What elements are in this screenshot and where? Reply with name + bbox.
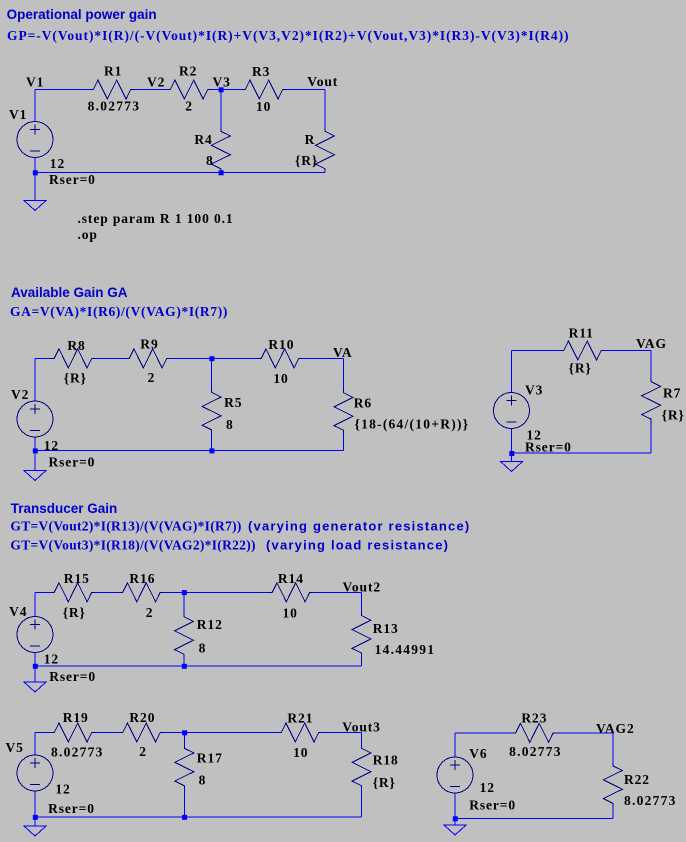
- junction: [33, 664, 38, 669]
- wire V4 bottom lead: [34, 652, 36, 682]
- svg-text:V1: V1: [26, 75, 44, 90]
- wire V1 node to R1: [35, 89, 90, 91]
- svg-text:10: 10: [256, 99, 271, 114]
- svg-text:GP=-V(Vout)*I(R)/(-V(Vout)*I(R: GP=-V(Vout)*I(R)/(-V(Vout)*I(R)+V(V3,V2)…: [7, 28, 569, 43]
- junction: [182, 730, 187, 735]
- resistor R15: [51, 583, 95, 602]
- svg-text:R20: R20: [129, 710, 155, 725]
- svg-text:{R}: {R}: [569, 361, 592, 376]
- svg-text:8.02773: 8.02773: [51, 745, 104, 760]
- wire V3 bottom lead: [511, 428, 513, 461]
- wire R13 to rail: [361, 657, 363, 667]
- wire R11 to VAG: [605, 350, 652, 352]
- ground: [24, 826, 46, 836]
- svg-text:12: 12: [50, 156, 65, 171]
- svg-text:14.44991: 14.44991: [375, 642, 436, 657]
- voltage source V4: [17, 617, 53, 653]
- svg-text:Rser=0: Rser=0: [49, 455, 96, 470]
- ground: [24, 471, 46, 481]
- svg-text:V3: V3: [525, 383, 543, 398]
- ground: [501, 462, 523, 472]
- svg-text:{R}: {R}: [662, 408, 685, 423]
- resistor R17: [175, 746, 194, 788]
- junction: [209, 448, 214, 453]
- svg-text:R2: R2: [179, 64, 197, 79]
- resistor R6: [334, 389, 353, 434]
- svg-text:10: 10: [293, 745, 308, 760]
- svg-text:R9: R9: [140, 336, 158, 351]
- resistor R8: [51, 349, 95, 368]
- wire R9 to R10 via node: [170, 357, 258, 359]
- svg-text:Rser=0: Rser=0: [48, 801, 95, 816]
- svg-text:R15: R15: [64, 571, 90, 586]
- svg-text:V5: V5: [6, 740, 24, 755]
- resistor R18: [352, 745, 371, 789]
- svg-text:R4: R4: [194, 132, 212, 147]
- resistor R12: [175, 613, 194, 658]
- ground: [444, 825, 466, 835]
- junction: [209, 356, 214, 361]
- svg-text:{R}: {R}: [64, 371, 87, 386]
- junction: [453, 816, 458, 821]
- wire R18 to rail: [361, 789, 363, 817]
- svg-text:10: 10: [283, 605, 298, 620]
- wire R10 to VA: [302, 357, 344, 359]
- resistor R11: [561, 341, 605, 360]
- wire R23 to VAG2: [557, 732, 613, 734]
- svg-text:12: 12: [44, 651, 59, 666]
- svg-text:V2: V2: [11, 387, 29, 402]
- svg-text:2: 2: [146, 605, 154, 620]
- resistor R3: [242, 80, 286, 99]
- wire R20 to R21 via node: [164, 732, 279, 734]
- svg-text:Vout3: Vout3: [342, 719, 381, 734]
- wire R7 to rail: [650, 423, 652, 453]
- svg-text:R3: R3: [252, 64, 270, 79]
- svg-text:Rser=0: Rser=0: [49, 172, 96, 187]
- svg-text:R13: R13: [373, 621, 399, 636]
- resistor R23: [513, 723, 557, 742]
- voltage source V5: [17, 755, 53, 791]
- wire R15 to R16: [95, 591, 120, 593]
- resistor R2: [167, 80, 211, 99]
- junction: [33, 815, 38, 820]
- svg-text:Vout2: Vout2: [343, 579, 382, 594]
- svg-text:VAG: VAG: [636, 336, 667, 351]
- wire node down to R17: [183, 733, 185, 747]
- svg-text:8.02773: 8.02773: [509, 744, 562, 759]
- svg-text:.op: .op: [78, 227, 98, 242]
- svg-text:8.02773: 8.02773: [624, 793, 677, 808]
- svg-text:R5: R5: [224, 395, 242, 410]
- wire Vout down to R: [324, 90, 326, 128]
- svg-text:8: 8: [226, 417, 234, 432]
- wire VA down to R6: [343, 358, 345, 389]
- svg-text:VAG2: VAG2: [596, 721, 635, 736]
- svg-text:{R}: {R}: [295, 153, 318, 168]
- svg-text:R7: R7: [663, 386, 681, 401]
- wire V6 bottom lead: [454, 793, 456, 825]
- resistor R19: [51, 723, 95, 742]
- svg-text:VA: VA: [333, 345, 353, 360]
- svg-text:2: 2: [185, 99, 193, 114]
- wire ground rail circuit 2: [35, 450, 344, 452]
- junction: [182, 590, 187, 595]
- svg-text:8: 8: [206, 153, 214, 168]
- wire ground rail circuit 1: [35, 172, 325, 174]
- svg-text:R10: R10: [268, 337, 294, 352]
- svg-text:2: 2: [139, 744, 147, 759]
- ground: [24, 201, 46, 211]
- svg-text:GT=V(Vout2)*I(R13)/(V(VAG)*I(R: GT=V(Vout2)*I(R13)/(V(VAG)*I(R7))(varyin…: [10, 519, 470, 534]
- wire V5 bottom lead: [34, 791, 36, 826]
- svg-text:GA=V(VA)*I(R6)/(V(VAG)*I(R7)): GA=V(VA)*I(R6)/(V(VAG)*I(R7)): [10, 304, 228, 319]
- wire R6 to rail: [343, 434, 345, 451]
- ground: [24, 682, 46, 692]
- svg-text:R23: R23: [521, 710, 547, 725]
- svg-text:{18-(64/(10+R))}: {18-(64/(10+R))}: [355, 416, 470, 431]
- wire V6 top lead: [454, 733, 456, 757]
- svg-text:R19: R19: [63, 710, 89, 725]
- svg-text:GT=V(Vout3)*I(R18)/(V(VAG2)*I(: GT=V(Vout3)*I(R18)/(V(VAG2)*I(R22))(vary…: [10, 538, 449, 553]
- wire V1 top lead: [34, 90, 36, 122]
- voltage source V6: [437, 757, 473, 793]
- svg-text:R6: R6: [354, 396, 372, 411]
- svg-text:12: 12: [480, 780, 495, 795]
- wire node down to R5: [211, 358, 213, 388]
- wire R14 to Vout2: [313, 591, 362, 593]
- svg-text:12: 12: [44, 438, 59, 453]
- wire VAG down to R7: [650, 351, 652, 379]
- wire V6 to R23: [455, 732, 513, 734]
- voltage source V1: [17, 122, 53, 158]
- wire node down to R12: [183, 592, 185, 613]
- resistor R14: [269, 583, 313, 602]
- junction: [182, 664, 187, 669]
- svg-text:8.02773: 8.02773: [88, 99, 141, 114]
- resistor R22: [603, 763, 622, 806]
- svg-text:Rser=0: Rser=0: [525, 440, 572, 455]
- wire R17 to rail: [183, 788, 185, 817]
- resistor R4: [211, 128, 230, 173]
- svg-text:R21: R21: [287, 711, 313, 726]
- svg-text:V6: V6: [469, 746, 487, 761]
- resistor R1: [90, 80, 134, 99]
- svg-text:R12: R12: [197, 617, 223, 632]
- svg-text:V3: V3: [213, 75, 231, 90]
- svg-text:R: R: [305, 132, 316, 147]
- wire V1 bottom lead to ground: [34, 158, 36, 201]
- wire R2 to R3 (node V3): [211, 89, 242, 91]
- svg-text:R11: R11: [569, 326, 594, 341]
- wire R19 to R20: [95, 732, 120, 734]
- wire V4 to R15: [35, 591, 51, 593]
- wire R12 to rail: [183, 658, 185, 666]
- svg-text:2: 2: [148, 370, 156, 385]
- wire V3 top lead: [511, 351, 513, 394]
- wire V5 to R19: [35, 732, 51, 734]
- svg-text:.step param R 1 100 0.1: .step param R 1 100 0.1: [78, 211, 234, 226]
- svg-text:12: 12: [55, 782, 70, 797]
- svg-text:R22: R22: [624, 772, 650, 787]
- wire R1 to R2 (node V2): [134, 89, 167, 91]
- wire V2 top lead: [34, 358, 36, 400]
- resistor R21: [278, 723, 322, 742]
- svg-text:Rser=0: Rser=0: [469, 797, 516, 812]
- resistor R7: [642, 378, 661, 423]
- resistor R: [316, 128, 335, 173]
- wire Vout2 down to R13: [361, 592, 363, 612]
- svg-text:10: 10: [273, 371, 288, 386]
- svg-text:R8: R8: [67, 338, 85, 353]
- svg-text:V1: V1: [9, 107, 27, 122]
- svg-text:R14: R14: [278, 571, 304, 586]
- voltage source V2: [17, 401, 53, 437]
- junction: [33, 448, 38, 453]
- svg-text:Vout: Vout: [307, 74, 338, 89]
- svg-text:V4: V4: [9, 604, 27, 619]
- svg-text:R17: R17: [197, 751, 223, 766]
- wire R22 to rail: [612, 806, 614, 819]
- resistor R10: [258, 349, 302, 368]
- svg-text:V2: V2: [147, 75, 165, 90]
- wire V3 to R11: [512, 350, 561, 352]
- wire R3 to Vout: [286, 89, 325, 91]
- wire V2 to R8: [35, 357, 51, 359]
- svg-text:R16: R16: [129, 571, 155, 586]
- junction: [509, 451, 514, 456]
- svg-text:8: 8: [199, 641, 207, 656]
- resistor R13: [352, 612, 371, 657]
- svg-text:R18: R18: [373, 752, 399, 767]
- wire ground rail circuit 5: [455, 818, 613, 820]
- wire ground rail circuit 4: [35, 816, 362, 818]
- junction: [33, 170, 38, 175]
- wire ground rail circuit 3: [35, 665, 362, 667]
- wire V5 top lead: [34, 733, 36, 756]
- wire R21 to Vout3: [322, 732, 362, 734]
- resistor R9: [126, 349, 170, 368]
- svg-text:Operational power gain: Operational power gain: [7, 7, 157, 22]
- wire V2 bottom lead: [34, 438, 36, 471]
- resistor R20: [120, 723, 164, 742]
- wire R16 to R14 via node: [164, 591, 270, 593]
- svg-text:{R}: {R}: [373, 775, 396, 790]
- voltage source V3: [494, 393, 530, 429]
- svg-text:{R}: {R}: [63, 605, 86, 620]
- wire R8 to R9: [95, 357, 126, 359]
- junction: [219, 87, 224, 92]
- wire V4 top lead: [34, 592, 36, 617]
- junction: [219, 170, 224, 175]
- resistor R16: [120, 583, 164, 602]
- svg-text:Rser=0: Rser=0: [49, 669, 96, 684]
- svg-text:Available Gain GA: Available Gain GA: [11, 285, 128, 300]
- svg-text:Transducer Gain: Transducer Gain: [11, 501, 118, 516]
- wire ground rail V3 circuit: [512, 452, 652, 454]
- svg-text:R1: R1: [104, 64, 122, 79]
- svg-text:8: 8: [199, 773, 207, 788]
- wire node V3 down to R4: [220, 90, 222, 128]
- wire VAG2 down to R22: [612, 733, 614, 763]
- junction: [182, 815, 187, 820]
- wire R5 to rail: [211, 433, 213, 450]
- wire Vout3 down to R18: [361, 733, 363, 746]
- resistor R5: [202, 389, 221, 434]
